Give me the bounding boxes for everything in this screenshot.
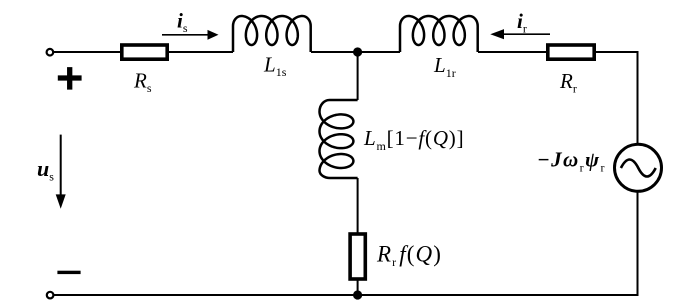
svg-text:Rr: Rr (559, 69, 577, 96)
svg-text:L1s: L1s (263, 52, 287, 79)
svg-text:−Jωrψr: −Jωrψr (537, 148, 606, 175)
wire right vertical lower (637, 192, 639, 297)
terminal top-left (47, 49, 54, 56)
inductor L_1s (233, 16, 311, 52)
wire resistor to bottom node (357, 279, 359, 295)
svg-text:us: us (37, 156, 54, 184)
svg-text:Lm[1−f(Q)]: Lm[1−f(Q)] (363, 126, 464, 153)
wire R_s to L_1s (169, 51, 233, 53)
svg-text:Rs: Rs (133, 69, 152, 96)
bottom wire (54, 294, 639, 296)
wire L_m to R_rf(Q) (357, 178, 359, 234)
sine wave (621, 160, 656, 177)
svg-text:ir: ir (517, 9, 527, 36)
source circle (615, 144, 662, 191)
node dot top (353, 47, 362, 56)
plus sign (58, 67, 82, 90)
resistor R_s (122, 45, 167, 59)
arrow i_r (503, 33, 550, 35)
wire L_1r to R_r (478, 51, 546, 53)
wire center vertical upper (357, 52, 359, 100)
wire L_1s to L_1r through node (311, 51, 400, 53)
inductor L_1r (400, 16, 478, 52)
inductor L_m (320, 100, 358, 178)
wire right vertical upper (637, 51, 639, 144)
terminal bottom-left (47, 292, 54, 299)
arrow i_s (162, 34, 209, 36)
resistor R_r f(Q) vertical (350, 234, 365, 279)
arrow u_s (60, 135, 62, 195)
wire R_r to corner (594, 51, 639, 53)
svg-text:L1r: L1r (433, 53, 456, 80)
svg-text:Rrf(Q): Rrf(Q) (376, 242, 442, 270)
node dot bottom (353, 290, 362, 299)
wire top left (53, 51, 120, 53)
resistor R_r (548, 45, 594, 59)
minus sign (57, 271, 80, 274)
svg-text:is: is (177, 8, 188, 35)
